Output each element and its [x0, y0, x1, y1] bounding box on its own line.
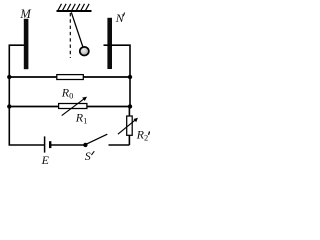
svg-text:N: N [115, 11, 125, 25]
svg-text:S: S [85, 149, 91, 163]
svg-text:E: E [41, 153, 50, 166]
svg-text:M: M [19, 7, 31, 21]
